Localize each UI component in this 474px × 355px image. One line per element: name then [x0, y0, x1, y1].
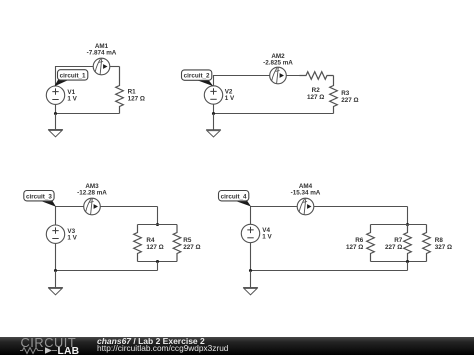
- svg-text:R4: R4: [146, 237, 155, 244]
- wire c4 bottom drop: [407, 262, 409, 271]
- voltage source V1: [46, 86, 77, 104]
- svg-text:R8: R8: [435, 237, 444, 244]
- wire c1 top: [56, 67, 94, 87]
- net label circuit_2: [182, 70, 214, 86]
- wire c1 top right: [110, 66, 120, 68]
- junction c1: [54, 112, 57, 115]
- svg-text:127 Ω: 127 Ω: [346, 244, 363, 251]
- svg-text:R6: R6: [355, 237, 364, 244]
- wire c3 top: [56, 207, 84, 226]
- svg-text:127 Ω: 127 Ω: [128, 95, 145, 102]
- svg-text:1 V: 1 V: [225, 95, 235, 102]
- svg-text:1 V: 1 V: [67, 95, 77, 102]
- svg-text:227 Ω: 227 Ω: [341, 97, 358, 104]
- junction c3 gnd: [54, 269, 57, 272]
- voltage source V2: [204, 86, 235, 104]
- resistor R5: [173, 225, 200, 262]
- footer title text: [97, 336, 205, 346]
- svg-text:327 Ω: 327 Ω: [435, 244, 452, 251]
- wire c1 ground stub: [55, 114, 57, 130]
- wire c3 ground stub: [55, 271, 57, 288]
- voltage source V4: [241, 224, 272, 242]
- ground: [48, 288, 63, 295]
- wire c3 top bar: [138, 224, 178, 226]
- wire c4 feed drop: [407, 207, 409, 225]
- wire c2 top: [214, 76, 270, 87]
- CircuitLab logo wordmark CIRCUIT: [21, 335, 77, 350]
- wire c3 feed drop: [157, 207, 159, 225]
- svg-text:-12.28 mA: -12.28 mA: [77, 190, 107, 197]
- resistor R1: [116, 67, 145, 114]
- wire c4 ground stub: [250, 271, 252, 288]
- junction c2: [212, 112, 215, 115]
- svg-text:circuit_3: circuit_3: [26, 193, 52, 200]
- wire c3 bottom: [56, 244, 158, 271]
- resistor R4: [134, 225, 164, 262]
- junction c4 top: [406, 223, 409, 226]
- wire c4 top bar: [371, 224, 427, 226]
- svg-text:-7.874 mA: -7.874 mA: [87, 50, 117, 57]
- logo resistor zigzag with arrow: [19, 346, 79, 355]
- wire c4 top: [251, 207, 298, 225]
- svg-text:R5: R5: [183, 237, 192, 244]
- footer bar: [0, 337, 474, 355]
- wire c2 ground stub: [213, 114, 215, 130]
- ammeter AM3: [77, 183, 107, 215]
- wire c4 top right: [314, 206, 408, 208]
- wire c4 bottom bar: [371, 261, 427, 263]
- resistor R2: [300, 72, 334, 101]
- ammeter AM2: [263, 53, 293, 84]
- junction c3 bottom: [156, 260, 159, 263]
- CircuitLab logo wordmark LAB: [58, 346, 80, 355]
- net label circuit_3: [24, 191, 56, 207]
- svg-text:227 Ω: 227 Ω: [183, 244, 200, 251]
- svg-text:227 Ω: 227 Ω: [385, 244, 402, 251]
- svg-text:127 Ω: 127 Ω: [146, 244, 163, 251]
- wire c4 bottom: [251, 243, 408, 271]
- resistor R6: [346, 225, 374, 262]
- net label circuit_4: [219, 191, 252, 207]
- svg-text:circuit_4: circuit_4: [221, 193, 247, 200]
- ammeter AM4: [291, 183, 321, 215]
- resistor R7: [385, 225, 411, 262]
- junction c4 gnd: [249, 269, 252, 272]
- svg-text:-2.825 mA: -2.825 mA: [263, 59, 293, 66]
- resistor R8: [423, 225, 452, 262]
- svg-text:-15.34 mA: -15.34 mA: [291, 190, 321, 197]
- wire c2 bottom: [214, 104, 334, 113]
- svg-text:1 V: 1 V: [67, 234, 77, 241]
- ground: [48, 130, 63, 137]
- ammeter AM1: [87, 43, 117, 75]
- wire c3 bottom drop: [157, 262, 159, 271]
- junction c4 bottom: [406, 260, 409, 263]
- ground: [206, 130, 221, 137]
- svg-text:1 V: 1 V: [262, 234, 272, 241]
- wire c3 top right: [100, 206, 157, 208]
- svg-text:127 Ω: 127 Ω: [307, 94, 324, 101]
- resistor R3: [330, 76, 359, 114]
- footer url text: [97, 343, 228, 353]
- wire c3 bottom bar: [138, 261, 178, 263]
- svg-text:circuit_1: circuit_1: [60, 73, 86, 80]
- ground: [243, 288, 258, 295]
- wire c2 top middle: [286, 75, 306, 77]
- junction c3 top: [156, 223, 159, 226]
- svg-text:R7: R7: [394, 237, 403, 244]
- svg-text:circuit_2: circuit_2: [184, 73, 210, 80]
- net label circuit_1: [54, 70, 88, 87]
- wire c1 bottom: [56, 105, 120, 114]
- voltage source V3: [46, 225, 77, 243]
